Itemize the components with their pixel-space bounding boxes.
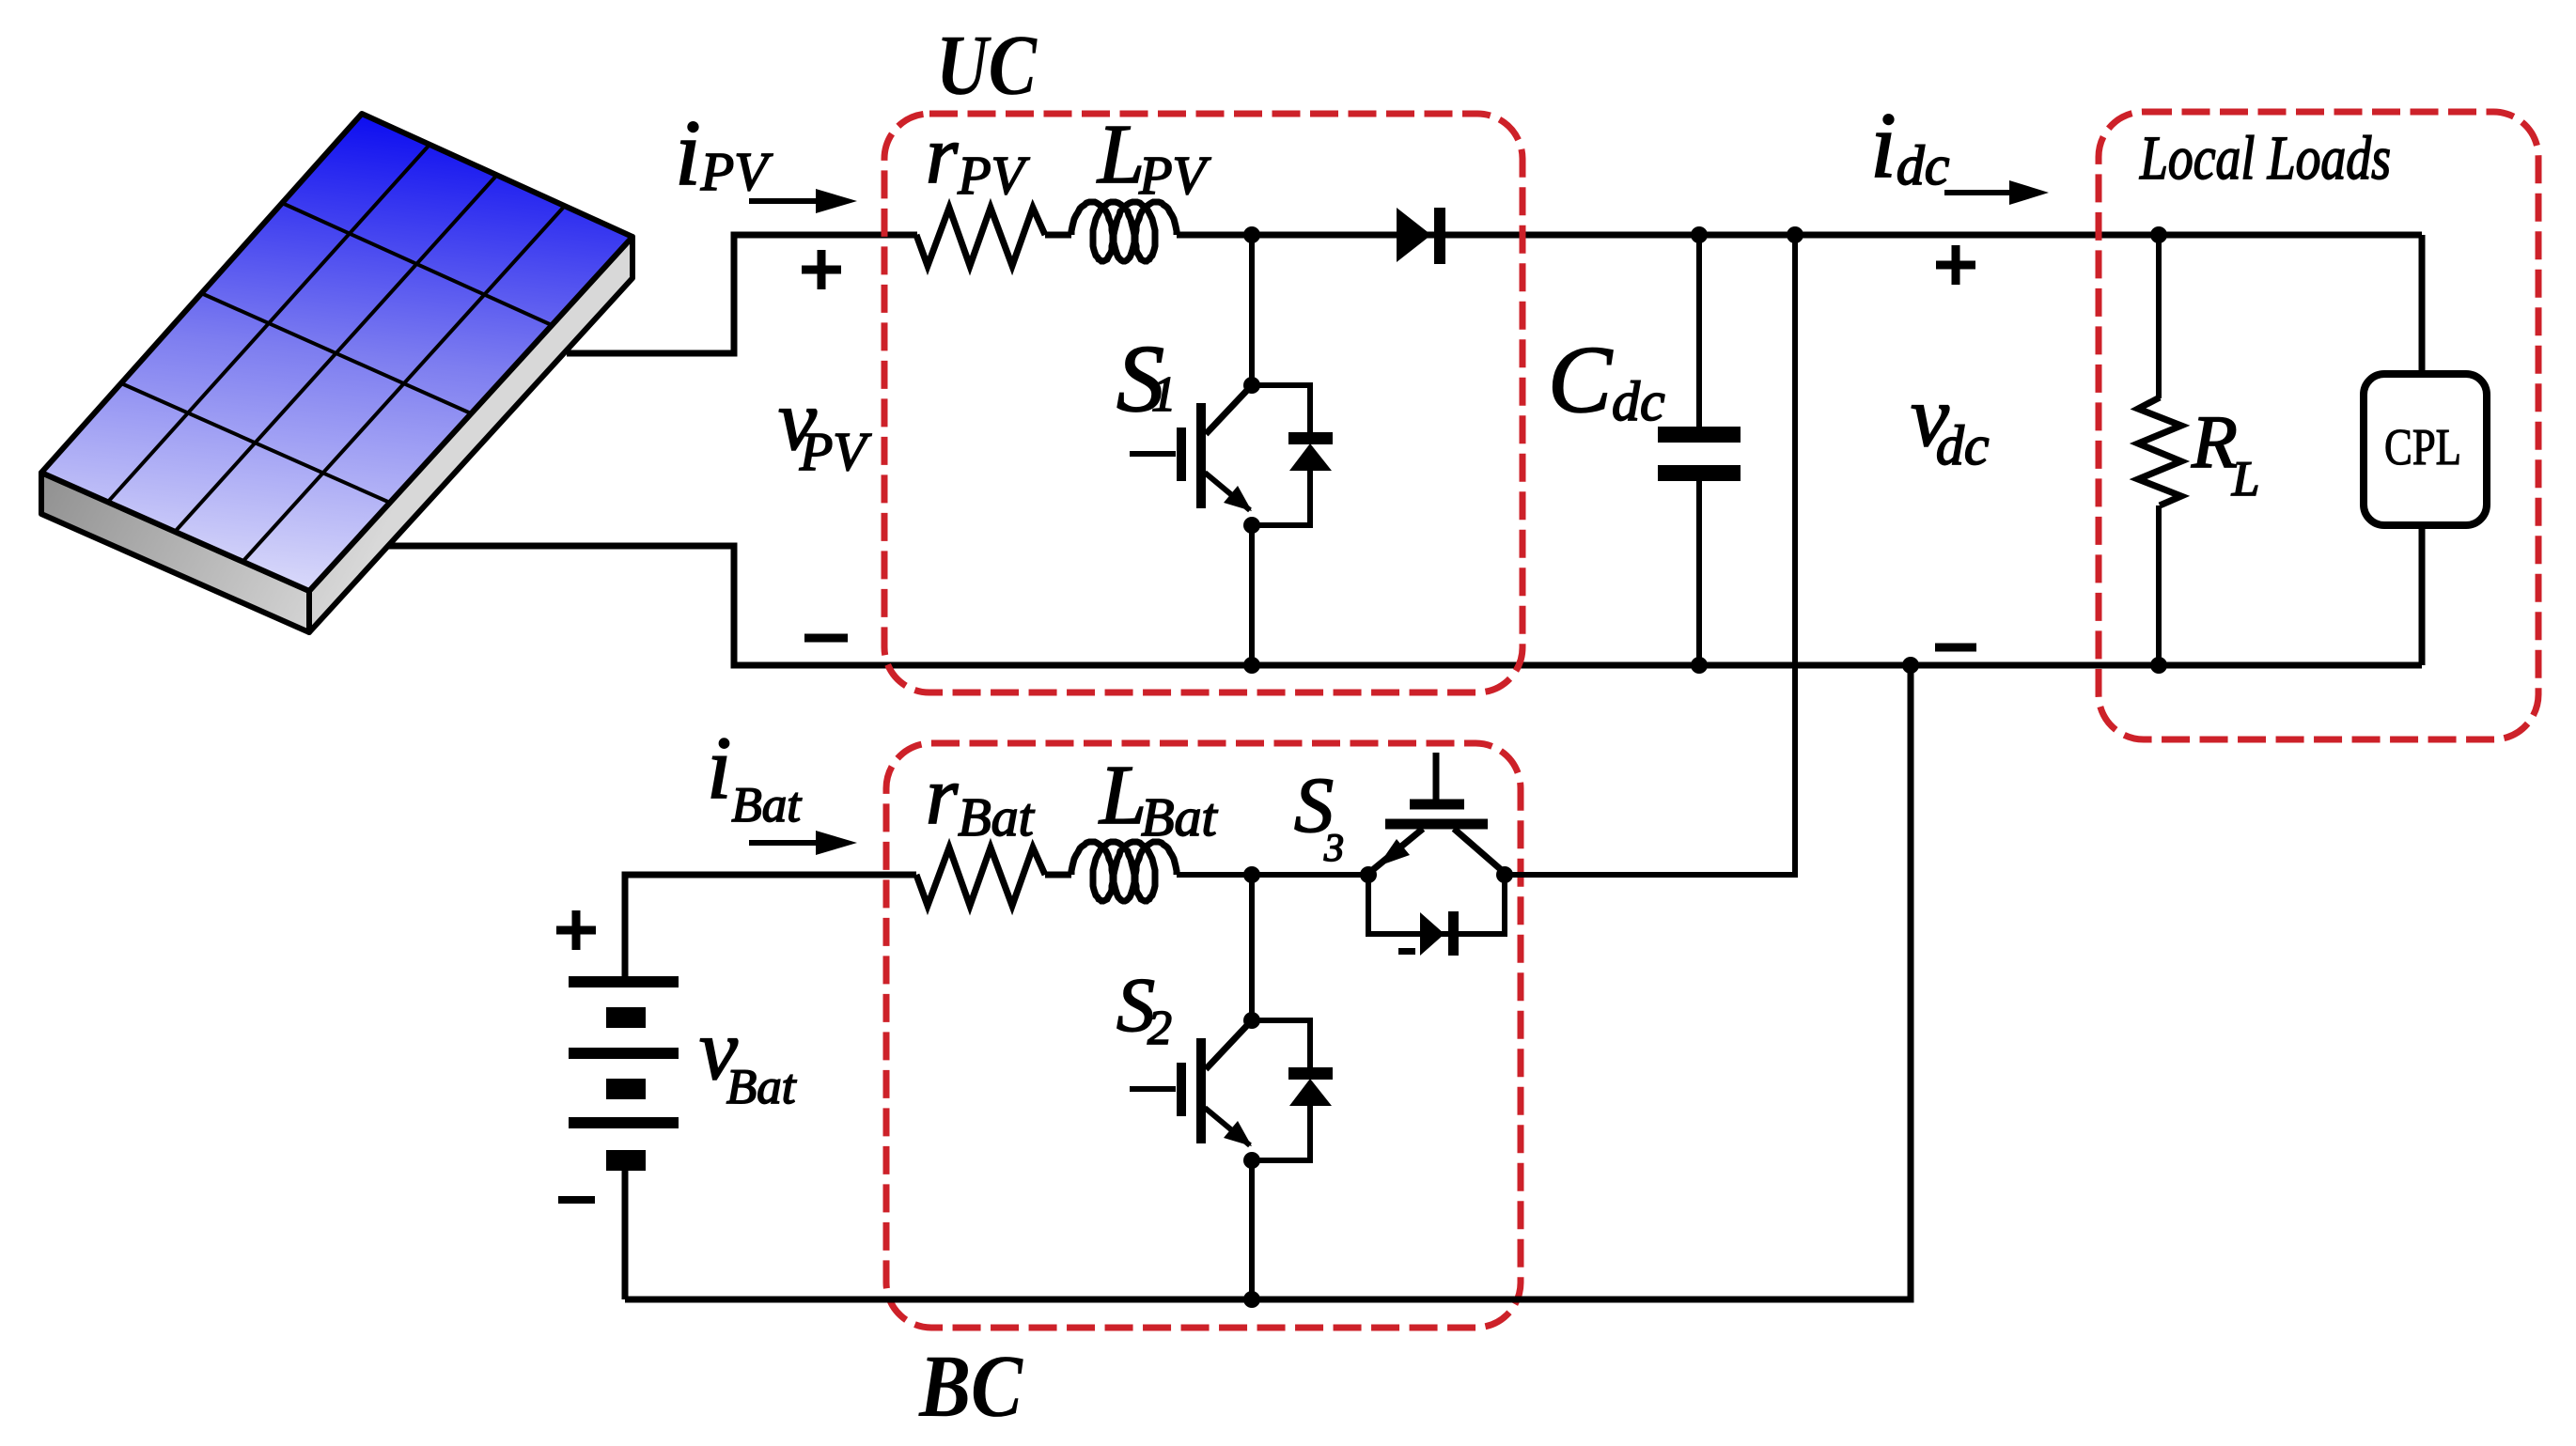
svg-text:CPL: CPL [2384, 418, 2461, 475]
transistor S1 [1130, 377, 1260, 534]
battery wire top [625, 875, 916, 976]
wire S1 emitter to bus [1249, 525, 1255, 665]
node battery return on bus [1902, 657, 1919, 674]
arrow iBat [749, 840, 820, 846]
wire battery return riser [625, 665, 1911, 1299]
node A top junction [1243, 226, 1260, 243]
resistor rBat [916, 847, 1045, 906]
wire S2 emitter to battery bus [1249, 1160, 1255, 1299]
resistor rPV [916, 208, 1045, 266]
svg-text:BC: BC [918, 1336, 1023, 1436]
UC dashed box [884, 114, 1522, 692]
plus vBat [556, 910, 596, 950]
wire RL riser bottom [2156, 505, 2162, 665]
wire L to S3 [1177, 872, 1368, 878]
minus vdc [1935, 644, 1976, 652]
minus vBat [558, 1196, 595, 1204]
wire CPL top drop [2419, 235, 2426, 374]
node Cdc bottom on dc- bus [1691, 657, 1708, 674]
wire S3 riser to top bus [1505, 235, 1795, 875]
plus vPV [802, 250, 841, 289]
wire CPL bottom drop [2419, 523, 2426, 665]
node RL top on dc+ bus [2150, 226, 2167, 243]
transistor S3 [1370, 753, 1505, 873]
svg-text:Local Loads: Local Loads [2139, 124, 2391, 193]
Local Loads dashed box [2099, 112, 2538, 739]
capacitor Cdc [1658, 235, 1741, 665]
wire dc+ bus [1177, 232, 2422, 239]
diode antiparallel S2 [1252, 1020, 1310, 1160]
resistor RL [2138, 397, 2181, 505]
battery wire bottom [622, 1171, 629, 1299]
arrow idc [1944, 190, 2013, 195]
node RL bottom on dc- bus [2150, 657, 2167, 674]
arrow iPV [749, 198, 820, 204]
wire S1 riser [1249, 235, 1255, 385]
inductor LPV [1071, 202, 1177, 261]
wire PV top to UC [567, 235, 917, 353]
wire S2 riser [1249, 875, 1255, 1020]
diode antiparallel S1 [1252, 385, 1310, 525]
BC dashed box [886, 743, 1521, 1328]
diode D1 [1397, 208, 1431, 262]
CPL load box [2364, 374, 2487, 525]
node battery bus [1243, 1291, 1260, 1308]
transistor S2 [1130, 1012, 1260, 1169]
diode antiparallel S3 [1368, 875, 1505, 934]
minus vPV [804, 634, 848, 643]
solar PV array panel [41, 114, 632, 632]
battery vBat [569, 976, 679, 1171]
wire RL riser top [2156, 235, 2162, 398]
svg-text:UC: UC [936, 17, 1038, 113]
node BC junction [1243, 866, 1260, 883]
plus vdc [1936, 245, 1975, 285]
inductor LBat [1071, 842, 1177, 901]
node Cdc top on dc+ bus [1691, 226, 1708, 243]
wire PV bottom / dc minus bus [388, 546, 2422, 665]
node S3 riser on dc+ bus [1787, 226, 1803, 243]
node bottom S1 [1243, 657, 1260, 674]
